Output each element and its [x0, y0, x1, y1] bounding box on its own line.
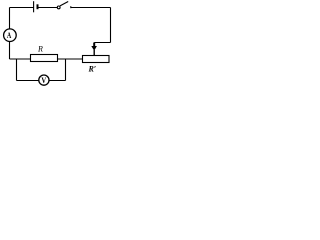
rheostat slider arrow stem: [93, 43, 95, 47]
wire battery to switch: [39, 7, 58, 9]
wire top-left to battery: [10, 7, 34, 9]
rheostat slider arrowhead: [91, 46, 97, 51]
wire bottom branch left: [17, 80, 39, 82]
wire middle branch left: [10, 58, 31, 60]
wire right rail to slider: [94, 42, 110, 44]
battery B1 short plate: [37, 4, 39, 9]
switch S blade: [60, 2, 68, 6]
svg-text:R: R: [37, 45, 43, 54]
svg-text:A: A: [7, 30, 12, 40]
voltmeter V circle: [39, 75, 49, 85]
rheostat R' box: [83, 56, 110, 63]
wire left drop to voltmeter branch: [16, 59, 18, 81]
resistor R box: [31, 55, 58, 62]
wire bottom branch right: [49, 80, 66, 82]
switch S pivot: [57, 6, 60, 9]
wire right drop: [65, 59, 67, 81]
svg-text:V: V: [41, 76, 46, 85]
rheostat slider contact line: [93, 50, 95, 56]
battery B1 long plate: [33, 1, 35, 12]
wire left rail below ammeter: [9, 42, 11, 60]
wire switch to top-right corner: [71, 7, 111, 9]
wire right rail: [110, 8, 112, 43]
ammeter A circle: [4, 29, 17, 42]
wire resistor to rheostat: [58, 58, 83, 60]
wire left rail top: [9, 8, 11, 30]
svg-text:R′: R′: [88, 64, 97, 73]
switch S fixed contact tick: [70, 6, 72, 8]
